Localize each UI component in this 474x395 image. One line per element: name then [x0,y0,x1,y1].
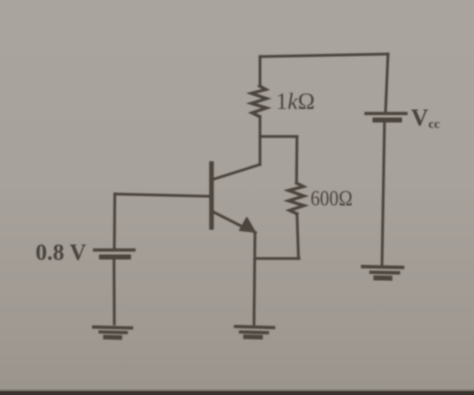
transistor Q1 emitter diagonal [213,212,245,228]
resistor R2 600Ω [289,183,305,214]
wire R2 top vertical [295,137,298,184]
battery V1 (Vcc) long plate [366,112,406,115]
ground (emitter) [235,326,273,337]
wire emitter-R2 bottom horizontal [256,257,300,260]
wire collector top vertical [259,57,262,86]
wire Vcc bottom vertical [382,122,385,265]
wire collector lower vertical [259,117,262,165]
svg-text:1kΩ: 1kΩ [276,89,315,114]
ground (right) [362,267,402,279]
wire Vcc top vertical [386,54,389,112]
wire emitter corner [249,230,256,233]
wire emitter vertical [254,233,255,324]
resistor R1 1kΩ [251,86,266,117]
bottom dark edge [0,391,474,395]
battery V2 (0.8 V) long plate [95,248,135,251]
wire 0.8V bottom vertical [113,257,116,324]
wire top rail [260,54,388,57]
wire branch to R2 [260,135,297,138]
wire R2 bottom vertical [297,214,299,259]
transistor Q1 base bar [209,164,214,228]
ground (left) [93,327,131,338]
svg-text:0.8 V: 0.8 V [36,240,87,265]
battery V2 (0.8 V) short plate [102,255,129,260]
battery V1 (Vcc) short plate [375,118,400,123]
transistor Q1 emitter arrowhead [240,218,255,232]
wire base horizontal [115,194,212,196]
transistor Q1 collector diagonal [213,165,261,180]
wire base-left vertical [113,194,116,250]
svg-text:600Ω: 600Ω [311,186,353,211]
